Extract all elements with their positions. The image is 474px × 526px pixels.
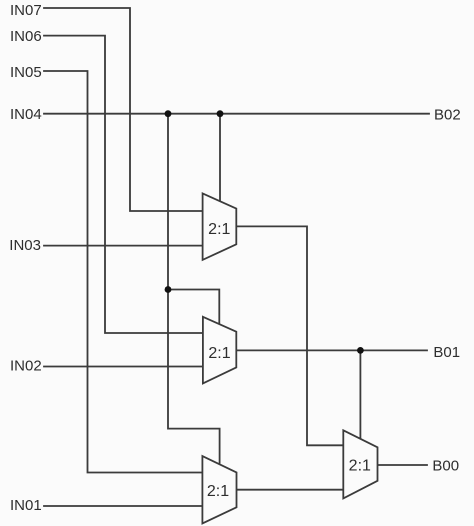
svg-text:2:1: 2:1 xyxy=(207,483,229,500)
wire IN01 to U4 input I1 xyxy=(44,505,202,507)
svg-text:IN04: IN04 xyxy=(10,106,42,123)
mux U4 (2:1) body xyxy=(202,456,236,523)
wire IN03 to U1 input I1 xyxy=(44,245,203,247)
wire IN04 to B02 xyxy=(44,113,429,115)
junction dot U2-select tap xyxy=(165,286,172,293)
wire IN07 to U1 input I0 xyxy=(44,8,203,211)
wire IN02 to U2 input I1 xyxy=(44,366,203,368)
svg-text:IN03: IN03 xyxy=(9,237,41,254)
mux U3 (2:1) body xyxy=(343,430,377,498)
wire U1 output to U3 input I0 xyxy=(236,226,343,445)
junction dot B01/U3-select xyxy=(357,347,364,354)
mux U1 (2:1) body xyxy=(203,193,237,260)
wire U4 output to U3 input I1 xyxy=(237,489,344,491)
svg-text:B01: B01 xyxy=(433,344,460,361)
svg-text:B00: B00 xyxy=(432,458,459,475)
wire U2 output to B01 xyxy=(236,349,427,351)
svg-text:IN02: IN02 xyxy=(10,358,42,375)
wire IN04 branch down to U4 select xyxy=(168,114,220,463)
wire B01 branch to U3 select xyxy=(359,350,361,439)
wire IN05 to U4 input I0 xyxy=(44,71,202,473)
svg-text:B02: B02 xyxy=(434,107,461,124)
wire IN06 to U2 input I0 xyxy=(44,36,203,333)
svg-text:2:1: 2:1 xyxy=(208,345,230,362)
mux U2 (2:1) body xyxy=(203,317,236,384)
svg-text:2:1: 2:1 xyxy=(349,458,371,475)
svg-text:2:1: 2:1 xyxy=(208,221,230,238)
junction dot IN04/U1-select xyxy=(217,110,224,117)
wire IN04 branch to U2 select xyxy=(168,290,219,324)
svg-text:IN07: IN07 xyxy=(10,2,42,19)
junction dot IN04/U2-select branch xyxy=(165,110,172,117)
svg-text:IN01: IN01 xyxy=(10,497,42,514)
svg-text:IN05: IN05 xyxy=(10,64,42,81)
wire U3 output to B00 xyxy=(378,464,428,466)
wire IN04 branch to U1 select xyxy=(219,114,221,201)
svg-text:IN06: IN06 xyxy=(10,28,42,45)
